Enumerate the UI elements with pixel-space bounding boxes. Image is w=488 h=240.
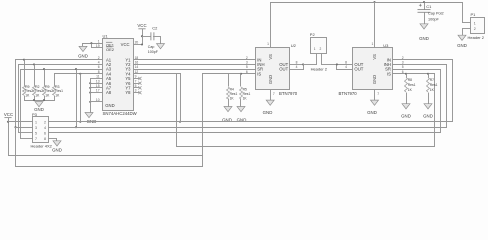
wire U3 IN down <box>452 60 454 122</box>
wire A3 bus vertical <box>20 70 22 139</box>
svg-text:Cap: Cap <box>148 45 155 49</box>
wire U3 IS right <box>392 73 435 75</box>
connector P3 body <box>33 117 49 143</box>
svg-text:4: 4 <box>98 61 100 65</box>
wire U2 OUT4 <box>289 69 304 71</box>
wire R7 top <box>428 74 430 78</box>
svg-text:Header 4X2: Header 4X2 <box>31 144 53 149</box>
svg-text:13: 13 <box>96 79 100 83</box>
svg-text:6: 6 <box>98 65 100 69</box>
wire U3 SR right <box>392 69 441 71</box>
wire Y1 to U2 IN <box>133 59 256 61</box>
svg-text:1K: 1K <box>25 94 30 98</box>
svg-text:2: 2 <box>320 47 322 51</box>
ground below R4 <box>224 107 232 112</box>
svg-text:1K: 1K <box>55 94 60 98</box>
wire R8 bottom <box>406 93 408 104</box>
wire R9 bottom <box>24 96 26 101</box>
svg-text:2: 2 <box>474 27 476 31</box>
node C2 tap <box>141 35 143 37</box>
U1 OE1 overline <box>106 41 112 43</box>
svg-text:1: 1 <box>314 47 316 51</box>
svg-text:VCC: VCC <box>121 42 130 47</box>
svg-text:GND: GND <box>419 36 429 41</box>
wire U3 OUT8 <box>336 64 353 66</box>
svg-text:R8: R8 <box>408 78 412 82</box>
svg-text:7: 7 <box>377 92 379 96</box>
svg-text:1: 1 <box>35 121 37 125</box>
wire U3 INH down <box>446 65 448 128</box>
svg-text:Header 2: Header 2 <box>468 35 485 40</box>
node U3 OUT <box>336 63 338 65</box>
capacitor C2 plate2 <box>153 32 155 40</box>
svg-text:VCC: VCC <box>4 112 13 117</box>
wire A8 stub <box>90 92 103 94</box>
wire P3 pin2 rail <box>48 121 453 123</box>
svg-text:8: 8 <box>296 61 298 65</box>
wire P2 pin2 to U3 OUT <box>321 64 337 66</box>
svg-text:Res1: Res1 <box>55 89 63 93</box>
ground below R8 <box>402 104 410 109</box>
capacitor C2 plate1 <box>150 32 152 40</box>
svg-text:5: 5 <box>35 131 37 135</box>
resistor R5 <box>240 87 243 99</box>
wire U2 OUT tie <box>303 65 305 70</box>
svg-text:Cap Pol2: Cap Pol2 <box>428 11 444 15</box>
svg-text:5: 5 <box>402 65 404 69</box>
wire A2 bus vertical <box>18 65 20 133</box>
svg-text:SN74AHC244DW: SN74AHC244DW <box>103 111 138 116</box>
wire P3 pin8 down <box>56 139 58 141</box>
svg-text:A8: A8 <box>106 90 112 95</box>
node A4 branch <box>79 73 81 75</box>
svg-text:8: 8 <box>44 137 46 141</box>
wire A6 stub <box>90 83 103 85</box>
svg-text:3: 3 <box>402 61 404 65</box>
node Y4 joins rail <box>179 121 181 123</box>
wire U2 GND stub <box>270 90 272 101</box>
no-connect Y6 <box>138 82 141 85</box>
connector P2 body <box>311 38 327 54</box>
ground at C2 <box>157 44 165 49</box>
svg-text:U2: U2 <box>291 43 297 48</box>
wire Y8 nc stub <box>133 92 139 94</box>
svg-text:1K: 1K <box>45 94 50 98</box>
svg-text:OE2: OE2 <box>106 47 115 52</box>
wire top rail <box>270 2 463 4</box>
svg-text:VCC: VCC <box>137 23 146 28</box>
svg-text:Res1: Res1 <box>430 83 438 87</box>
ground below P1 <box>458 35 466 40</box>
wire P3 pin5 <box>18 132 33 134</box>
wire A5-A8 tie vertical <box>90 79 92 113</box>
wire A3 row <box>20 69 103 71</box>
resistor R2 <box>33 85 36 95</box>
wire C2 right <box>153 36 161 38</box>
svg-text:1: 1 <box>267 42 269 46</box>
svg-text:1K: 1K <box>408 88 413 92</box>
wire OE2 stub <box>91 47 103 49</box>
no-connect Y7 <box>138 86 141 89</box>
svg-text:GND: GND <box>367 110 377 115</box>
svg-text:16: 16 <box>135 61 139 65</box>
wire C1 bottom <box>424 13 426 24</box>
svg-text:VS: VS <box>268 54 273 60</box>
svg-text:3: 3 <box>35 126 37 130</box>
svg-text:8: 8 <box>345 61 347 65</box>
connector P1 body <box>471 18 485 34</box>
svg-text:5: 5 <box>246 65 248 69</box>
wire R4 bottom <box>228 99 230 107</box>
no-connect Y8 <box>138 91 141 94</box>
node pin10 tie <box>89 101 91 103</box>
wire Y4 row <box>133 73 181 75</box>
wire U1 pin20 <box>133 44 143 46</box>
node U2 OUT <box>302 63 304 65</box>
wire P3 pin7 <box>20 138 33 140</box>
svg-text:1: 1 <box>474 21 476 25</box>
node top rail U3 VS <box>373 1 375 3</box>
wire A4 branch down <box>80 74 82 122</box>
wire P1 pin2 stub <box>462 28 471 30</box>
svg-text:4: 4 <box>345 65 347 69</box>
node R8 tap <box>405 73 407 75</box>
svg-text:C1: C1 <box>426 4 432 9</box>
svg-text:Res1: Res1 <box>243 92 251 96</box>
ground below U3 <box>371 100 379 105</box>
svg-text:GND: GND <box>457 43 467 48</box>
svg-text:R7: R7 <box>430 78 434 82</box>
svg-text:1K: 1K <box>430 88 435 92</box>
wire VCC stem <box>142 29 144 45</box>
U1 OE2 overline <box>106 46 112 48</box>
svg-text:9: 9 <box>135 75 137 79</box>
resistor R8 <box>405 78 408 93</box>
svg-text:GND: GND <box>423 114 433 119</box>
wire Y6 nc stub <box>133 83 139 85</box>
svg-text:100pF: 100pF <box>428 17 439 21</box>
ground below R5 <box>237 107 245 112</box>
IC U2 body <box>256 48 290 90</box>
svg-text:GND: GND <box>78 54 88 59</box>
wire R8 top <box>406 74 408 78</box>
wire U2 IS down <box>202 74 204 167</box>
wire R5 top <box>240 74 242 87</box>
node A6 tie <box>89 82 91 84</box>
wire A5 stub <box>90 78 103 80</box>
node R5 tap <box>240 73 242 75</box>
wire OE1 corner down <box>82 44 84 47</box>
wire A4 row <box>54 73 103 75</box>
svg-text:6: 6 <box>44 131 46 135</box>
svg-text:BTN7970: BTN7970 <box>279 91 298 96</box>
node A1 bus P3 pin3 <box>14 126 16 128</box>
svg-text:P1: P1 <box>471 12 477 17</box>
wire resistor joiner <box>24 100 55 102</box>
wire pin10 stub <box>90 101 103 103</box>
svg-text:20: 20 <box>135 41 139 45</box>
svg-text:3: 3 <box>246 61 248 65</box>
node joiner col3 <box>43 99 45 101</box>
wire A1 bus vertical <box>15 60 17 167</box>
svg-text:U3: U3 <box>383 43 389 48</box>
wire R5 bottom <box>240 99 242 107</box>
svg-text:GND: GND <box>401 114 411 119</box>
wire R7 bottom <box>428 93 430 104</box>
node VCC pin20 <box>141 43 143 45</box>
wire R3 bottom <box>54 96 56 101</box>
resistor R9 <box>43 85 46 95</box>
svg-text:1K: 1K <box>243 97 248 101</box>
svg-text:GND: GND <box>263 110 273 115</box>
svg-text:GND: GND <box>105 103 114 108</box>
resistor R3 <box>53 85 56 95</box>
wire U3 GND stub <box>374 90 376 101</box>
svg-text:1: 1 <box>371 42 373 46</box>
wire R9 bottom <box>44 96 46 101</box>
node resistor col1 tap <box>23 59 25 61</box>
svg-text:P3: P3 <box>32 112 38 117</box>
svg-text:OUT: OUT <box>279 67 288 72</box>
svg-text:R4: R4 <box>230 88 234 92</box>
resistor R7 <box>427 78 430 93</box>
svg-text:BTN7970: BTN7970 <box>339 91 358 96</box>
node A8 tie <box>89 92 91 94</box>
svg-text:Res1: Res1 <box>408 83 416 87</box>
wire A3 branch down <box>76 70 78 128</box>
svg-text:R5: R5 <box>243 88 247 92</box>
wire U2 VS from top rail <box>270 3 272 48</box>
wire Y2 to U2 INH <box>133 64 256 66</box>
wire VCC bottom rail <box>8 155 203 157</box>
svg-text:GND: GND <box>268 75 273 84</box>
wire A7 stub <box>90 87 103 89</box>
IC U1 body <box>103 39 134 111</box>
wire U3 SR down <box>440 70 442 133</box>
node A3 branch <box>75 68 77 70</box>
wire U3 OUT tie <box>336 65 338 70</box>
power VCC symbol left <box>4 117 11 119</box>
wire IS return left vertical <box>176 74 178 147</box>
svg-text:GND: GND <box>372 75 377 84</box>
wire A2 row <box>18 64 103 66</box>
wire Y7 nc stub <box>133 87 139 89</box>
wire P3 pin1 <box>8 121 33 123</box>
wire P2 pin1 down <box>316 54 318 65</box>
wire R2 bottom <box>34 96 36 101</box>
svg-text:P2: P2 <box>310 32 316 37</box>
wire U3 IS down <box>434 74 436 147</box>
wire P3 pin8 stub <box>48 138 57 140</box>
wire U3 INH right <box>392 64 447 66</box>
wire Y5 nc stub <box>133 78 139 80</box>
wire P1 pin2 down <box>462 29 464 36</box>
node A7 tie <box>89 87 91 89</box>
wire U2 IS row <box>202 73 256 75</box>
node resistor col2 tap <box>33 63 35 65</box>
svg-text:IS: IS <box>387 71 391 76</box>
svg-text:Res1: Res1 <box>230 92 238 96</box>
wire C2 to ground <box>160 37 162 44</box>
wire A1 row <box>15 59 103 61</box>
svg-text:100pF: 100pF <box>148 50 159 54</box>
svg-text:C2: C2 <box>152 25 158 30</box>
wire C2 left <box>142 36 151 38</box>
node joiner col2 <box>33 99 35 101</box>
wire resistor col4 top <box>54 74 56 86</box>
wire U3 OUT4 <box>336 69 353 71</box>
svg-text:4: 4 <box>44 126 46 130</box>
wire P2 pin1 to U2 OUT <box>303 64 317 66</box>
C1 plus sign vertical <box>419 4 421 7</box>
node OE tie junction <box>90 42 92 44</box>
wire P3 pin3 <box>15 127 33 129</box>
power VCC symbol <box>138 28 145 30</box>
ground below U1 <box>85 113 93 118</box>
wire A1 bottom rail <box>15 166 203 168</box>
ground at P3 pin8 <box>53 141 61 146</box>
svg-text:7: 7 <box>135 79 137 83</box>
wire U3 VS from top rail <box>374 3 376 48</box>
resistor R9 <box>23 85 26 95</box>
svg-text:1: 1 <box>98 39 100 43</box>
svg-text:2: 2 <box>44 121 46 125</box>
capacitor C1 plate2 <box>418 11 431 13</box>
svg-text:U1: U1 <box>103 34 109 39</box>
node A4 branch joins rail <box>79 121 81 123</box>
C1 plus sign <box>419 4 422 6</box>
wire top rail to P1 <box>462 3 464 23</box>
svg-text:IS: IS <box>257 71 261 76</box>
svg-text:Y8: Y8 <box>125 90 131 95</box>
wire P3 pin4 rail <box>48 127 447 129</box>
svg-text:VS: VS <box>372 54 377 60</box>
wire resistor col2 top <box>34 65 36 86</box>
wire P1 pin1 stub <box>462 22 471 24</box>
wire P2 pin2 down <box>321 54 323 65</box>
capacitor C1 plate1 <box>418 9 431 11</box>
svg-text:4: 4 <box>296 65 298 69</box>
wire VCC left stem <box>8 118 10 156</box>
svg-text:14: 14 <box>135 65 139 69</box>
ground below C1 <box>420 24 428 29</box>
ground at OE pins <box>79 46 87 51</box>
wire Y4 down <box>180 74 182 122</box>
wire OE2 tie vertical <box>91 44 93 48</box>
wire Y3 to U2 SR <box>133 69 256 71</box>
wire resistor col3 top <box>44 70 46 86</box>
svg-text:Header 2: Header 2 <box>311 66 328 71</box>
node top rail C1 <box>423 1 425 3</box>
svg-text:6: 6 <box>246 70 248 74</box>
wire resistor col1 top <box>24 60 26 86</box>
wire U3 IN right <box>392 59 453 61</box>
wire U2 OUT8 <box>289 64 304 66</box>
node VCC pin1 tap <box>7 121 9 123</box>
svg-text:2: 2 <box>246 56 248 60</box>
svg-text:1K: 1K <box>35 94 40 98</box>
svg-text:7: 7 <box>35 137 37 141</box>
ground below U2 <box>266 100 274 105</box>
node A3 branch joins rail <box>75 126 77 128</box>
svg-text:OUT: OUT <box>354 67 363 72</box>
no-connect Y5 <box>138 77 141 80</box>
node resistor col3 tap <box>43 68 45 70</box>
svg-text:1K: 1K <box>230 97 235 101</box>
wire R4 top <box>228 74 230 87</box>
wire IS return rail <box>176 146 435 148</box>
svg-text:7: 7 <box>273 92 275 96</box>
node R7 tap <box>427 73 429 75</box>
ground below resistors <box>35 102 43 107</box>
resistor R4 <box>227 87 230 99</box>
wire C1 top <box>424 3 426 10</box>
svg-text:GND: GND <box>52 148 62 153</box>
IC U3 body <box>353 48 393 90</box>
svg-text:11: 11 <box>96 75 100 79</box>
wire OE1 to ground <box>82 43 103 45</box>
wire P3 pin6 rail <box>48 132 441 134</box>
ground below R7 <box>424 104 432 109</box>
